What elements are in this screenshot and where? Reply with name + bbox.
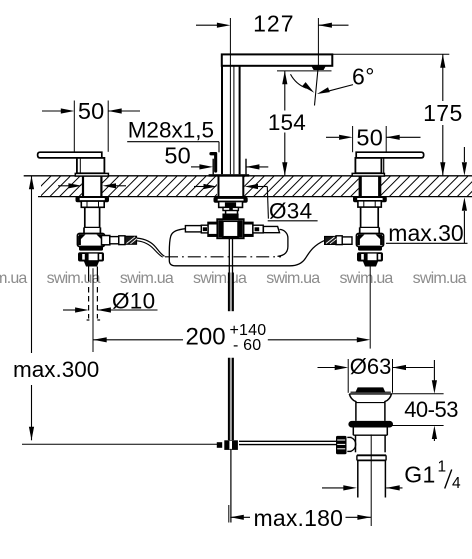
left supply pipe dashed phantom	[87, 287, 101, 320]
svg-text:max.30: max.30	[388, 220, 463, 246]
pull rod lower wire	[230, 449, 232, 523]
svg-text:swim.ua: swim.ua	[266, 270, 320, 287]
left outlet hex	[119, 236, 125, 245]
drain seal ring	[348, 421, 393, 428]
drain tail slip ring	[357, 455, 386, 460]
tee left port hex	[208, 222, 218, 237]
tee right ferrule tube	[263, 226, 279, 232]
right escutcheon	[352, 173, 384, 176]
svg-text:50: 50	[78, 98, 105, 124]
svg-text:4: 4	[452, 475, 461, 492]
hose hook up to tee right ferrule	[278, 229, 288, 256]
left outlet elbow fitting	[102, 236, 110, 245]
right valve elbow	[357, 234, 384, 251]
countertop deck with hatching	[24, 174, 472, 199]
svg-text:127: 127	[253, 11, 294, 37]
dimension max.180	[229, 505, 371, 531]
dimension 50 center	[164, 142, 268, 169]
horizontal reference line	[22, 443, 218, 445]
svg-text:swim.ua: swim.ua	[193, 270, 247, 287]
dimension 200 +140 -60	[93, 322, 370, 354]
left supply centerline	[92, 268, 94, 352]
left supply pipe walls solid	[89, 267, 98, 282]
left escutcheon	[75, 173, 108, 176]
phantom hose dash-dot middle run	[165, 256, 281, 258]
spout shank neck	[226, 211, 238, 214]
dimension max.300	[13, 176, 99, 441]
svg-text:50: 50	[164, 142, 191, 168]
hose from left valve braided going down-right	[137, 238, 165, 257]
left valve locknut	[81, 201, 104, 207]
right outlet fitting	[342, 237, 352, 244]
right valve lever handle	[356, 152, 424, 158]
left valve tube	[84, 207, 100, 233]
dimension 127	[196, 11, 349, 175]
svg-text:- 60: - 60	[233, 337, 261, 354]
spout locknut	[219, 202, 243, 208]
label dia 34	[268, 198, 318, 223]
right braided hose end	[325, 237, 337, 245]
left valve lever handle	[38, 152, 102, 158]
dimension 40-53	[391, 360, 458, 441]
left outlet fitting	[110, 237, 119, 244]
tee left port connector	[201, 225, 208, 233]
left deck hole shank	[83, 176, 101, 196]
right valve locknut	[358, 201, 381, 207]
center hole arrow right with leader to dia34	[245, 184, 269, 219]
drain centerline	[370, 434, 372, 526]
right deck hole shank	[360, 176, 380, 196]
left braided hose end	[125, 236, 137, 244]
left valve body	[77, 158, 105, 173]
left hole arrow left	[58, 183, 82, 188]
svg-text:175: 175	[423, 100, 463, 126]
svg-text:154: 154	[268, 110, 306, 135]
svg-text:200: 200	[186, 324, 226, 351]
svg-text:Ø34: Ø34	[269, 198, 312, 223]
tee neck dark block	[222, 214, 238, 220]
left hole arrow right	[103, 183, 127, 188]
svg-text:max.180: max.180	[254, 505, 344, 531]
spout base side lines	[213, 159, 246, 175]
right valve locknut flange	[354, 197, 386, 201]
right valve compression nut	[357, 252, 383, 261]
dimension 6 degrees	[277, 64, 375, 95]
svg-text:swim.ua: swim.ua	[413, 270, 467, 287]
left valve elbow	[78, 234, 105, 251]
pull rod below tee	[229, 238, 233, 311]
label M28x1,5	[127, 118, 219, 153]
svg-text:50: 50	[356, 125, 383, 151]
drain body below seal	[353, 428, 387, 453]
drain knurled knob	[336, 436, 347, 454]
right supply centerline down to drain	[369, 267, 371, 349]
spout aerator	[312, 66, 326, 70]
svg-text:swim.ua: swim.ua	[0, 270, 27, 287]
right valve body	[355, 158, 383, 173]
right valve tail	[363, 262, 378, 267]
spout locknut flange	[215, 198, 247, 202]
center hole arrow left	[194, 184, 217, 189]
water stream 6 deg line	[315, 65, 319, 106]
dimension 175	[333, 54, 463, 176]
label dia 10 with arrows	[63, 288, 158, 313]
dimension 50 left	[42, 98, 140, 152]
pull rod clevis connector	[217, 440, 238, 450]
drain ball rod housing	[347, 437, 355, 451]
svg-text:swim.ua: swim.ua	[120, 270, 174, 287]
drain tailpipe	[358, 460, 386, 498]
right outlet hex	[336, 236, 342, 245]
svg-text:6°: 6°	[352, 64, 375, 90]
tee right port connector	[253, 225, 263, 233]
pull rod knob behind spout	[209, 152, 217, 173]
watermark row swim.ua	[0, 270, 467, 287]
svg-text:1: 1	[438, 459, 447, 476]
horizontal actuating rod to drain	[239, 441, 336, 444]
drain flange trumpet	[349, 394, 391, 421]
svg-text:Ø63: Ø63	[350, 354, 392, 379]
tee body	[217, 219, 244, 238]
label G1 1/4	[322, 459, 461, 493]
dimension 154	[268, 71, 306, 176]
label max.30 with deck thickness arrows	[386, 147, 468, 246]
svg-text:40-53: 40-53	[404, 397, 458, 422]
dimension 50 right	[326, 125, 421, 153]
svg-text:swim.ua: swim.ua	[339, 270, 393, 287]
spout shank through deck	[219, 176, 244, 196]
dimension dia 63	[318, 354, 434, 393]
faucet spout column	[222, 54, 332, 174]
svg-text:max.300: max.300	[13, 357, 99, 382]
drain plug dome	[351, 388, 391, 392]
pull rod lower section	[229, 358, 233, 441]
right valve tube	[360, 207, 380, 233]
left valve tail	[84, 262, 99, 267]
center escutcheon	[209, 174, 250, 177]
left valve locknut flange	[77, 197, 109, 201]
svg-text:G1: G1	[404, 462, 435, 488]
hose from tee left port down and along bottom to right valve	[169, 229, 324, 266]
spout shank step	[223, 207, 238, 210]
tee left ferrule tube	[185, 226, 201, 232]
tee right port hex	[243, 222, 253, 237]
svg-text:M28x1,5: M28x1,5	[128, 118, 214, 143]
left valve compression nut	[78, 252, 104, 261]
